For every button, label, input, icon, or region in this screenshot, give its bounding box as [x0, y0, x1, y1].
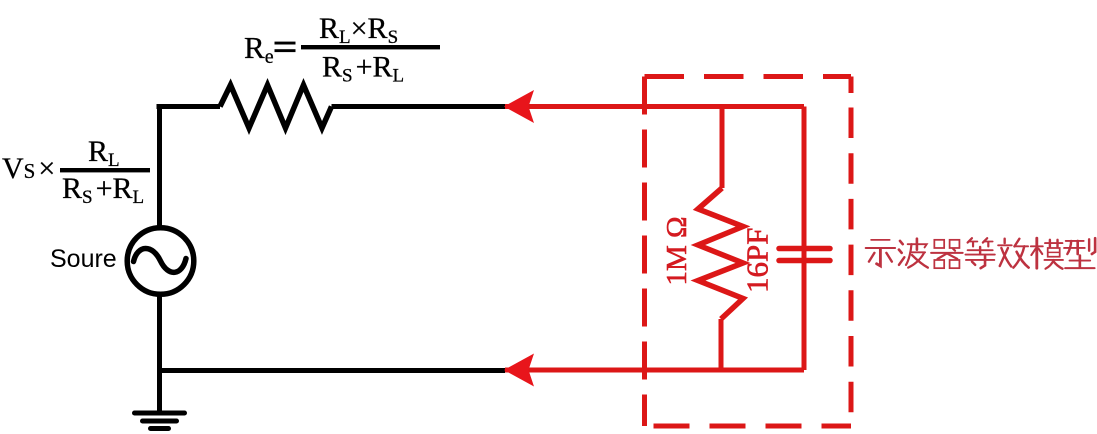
label formula Vs * RL/(RS+RL)	[2, 135, 150, 208]
ground	[135, 413, 185, 429]
dashed box bottom edge	[645, 424, 852, 429]
dashed box right edge corner piece	[849, 77, 854, 94]
svg-text:Soure: Soure	[50, 245, 117, 273]
wire: top horizontal left segment	[157, 104, 221, 109]
wire: bottom horizontal black	[159, 368, 505, 373]
char 示	[866, 240, 895, 266]
wire: top horizontal right segment to arrow	[332, 104, 506, 109]
char 器	[931, 240, 963, 268]
resistor 1M lead bottom	[719, 319, 724, 372]
svg-text:16PF: 16PF	[740, 228, 775, 293]
svg-text:RL: RL	[88, 135, 120, 171]
char 模	[1031, 238, 1063, 269]
arrowhead top	[504, 90, 534, 123]
resistor 1M zigzag	[698, 188, 743, 319]
char 效	[998, 239, 1029, 268]
svg-text:Re: Re	[244, 30, 274, 68]
sine symbol inside source	[134, 248, 187, 272]
svg-text:RS+RL: RS+RL	[62, 172, 144, 208]
char 波	[899, 239, 928, 268]
label formula Re = RL*RS/(RS+RL)	[244, 12, 440, 87]
wire: left vertical from top corner to source top	[157, 105, 162, 231]
label Chinese: oscilloscope equivalent model	[866, 238, 1095, 269]
svg-text:RL×RS: RL×RS	[319, 12, 398, 48]
svg-text:1M Ω: 1M Ω	[661, 216, 693, 285]
char 型	[1064, 238, 1095, 268]
dashed box right edge	[849, 108, 854, 427]
dashed box (oscilloscope model) top edge	[645, 74, 852, 79]
capacitor 16PF vertical lead	[802, 107, 807, 371]
capacitor 16PF plates	[779, 249, 830, 261]
svg-text:RS+RL: RS+RL	[322, 51, 404, 87]
char 等	[965, 238, 994, 268]
arrowhead bottom	[504, 354, 534, 387]
resistor Re (zigzag)	[220, 85, 332, 128]
red wire: top horizontal	[505, 104, 804, 109]
svg-text:VS×: VS×	[2, 152, 55, 185]
wire: source bottom to ground	[157, 294, 162, 413]
dashed box left edge	[642, 77, 647, 427]
source V1 (AC source circle)	[127, 228, 194, 295]
red wire: bottom horizontal	[505, 368, 804, 373]
resistor 1M (red, vertical zigzag) lead top	[720, 107, 725, 189]
